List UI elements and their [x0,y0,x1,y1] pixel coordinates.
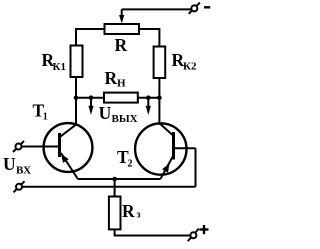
svg-text:U: U [3,154,16,174]
svg-text:К1: К1 [53,61,66,73]
svg-text:ВХ: ВХ [16,165,31,177]
Uvyh arrow right [146,98,151,115]
node dot arrow right [146,95,151,100]
svg-text:К2: К2 [183,61,197,73]
terminal input top [13,141,24,152]
svg-text:Н: Н [117,78,126,90]
wire RK1 bottom to node [75,77,77,98]
potentiometer wiper arrow [119,9,124,23]
wire T2 base riser [195,148,197,187]
transistor T1 [44,123,93,178]
svg-text:з: з [137,210,141,221]
terminal plus [188,229,199,242]
svg-text:1: 1 [43,112,48,123]
transistor T1 collector wire [75,98,77,125]
resistor RK2 body [154,47,166,79]
svg-text:ВЫХ: ВЫХ [112,113,138,125]
transistor T2 collector wire [158,98,160,124]
terminal input bottom [14,181,25,192]
Uvyh arrow left [88,98,93,115]
wire emitter to Re [114,179,116,197]
node dot emitter [112,177,117,182]
terminal minus [189,3,200,14]
resistor Rn body [104,93,138,103]
transistor T2 [135,123,186,179]
wire R right to RK2 top [139,29,159,47]
resistor R body [105,24,140,34]
svg-text:U: U [99,103,112,123]
wire emitter bus [78,178,161,180]
svg-text:R: R [105,68,118,88]
node dot RK1 [74,95,79,100]
node dot arrow left [89,95,94,100]
wire top rail to minus terminal [122,8,192,10]
wire RK2 bottom to node [158,78,160,98]
wire R left to RK1 top [76,29,105,46]
svg-text:2: 2 [128,159,133,170]
node dot RK2 [157,95,162,100]
plus sign label [200,225,209,234]
minus sign label [204,6,210,8]
wire input top to T1 base [22,146,59,148]
resistor RK1 body [71,46,83,78]
resistor Re body [109,197,121,230]
wire Re bottom to plus terminal [115,229,191,235]
wire collector node line [76,97,159,99]
wire T2 base [175,147,196,149]
svg-text:R: R [115,35,128,55]
wire input bottom rail [22,186,196,188]
svg-text:R: R [122,201,135,221]
